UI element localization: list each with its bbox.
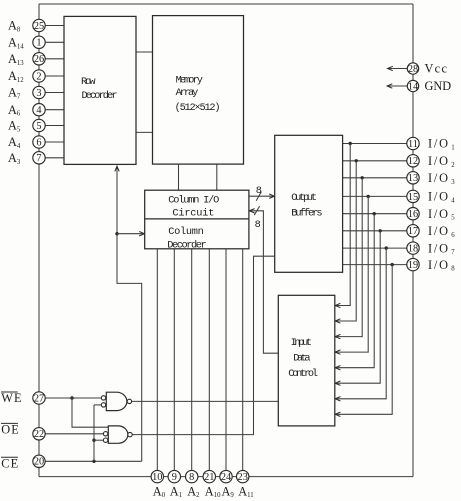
svg-text:2: 2 <box>36 71 41 82</box>
svg-text:26: 26 <box>34 54 44 65</box>
wire pin 25 to Row Decoder <box>39 25 64 27</box>
svg-text:I/O8: I/O8 <box>428 258 457 273</box>
svg-text:28: 28 <box>408 64 418 75</box>
wire CE branch up to gate inputs <box>93 405 95 461</box>
pin 9 <box>168 470 180 482</box>
svg-text:A3: A3 <box>8 151 21 166</box>
svg-text:Decorder: Decorder <box>82 90 118 102</box>
bus slash lower <box>254 206 259 215</box>
wire NAND G1 output to Input Data Control <box>132 400 279 402</box>
wire column address line pin 23 <box>242 249 244 477</box>
svg-text:A9: A9 <box>222 484 235 499</box>
svg-text:27: 27 <box>34 393 44 404</box>
pin 27 <box>33 392 45 404</box>
wire Memory Array to Column I/O left <box>178 164 180 190</box>
pin 16 <box>407 208 419 220</box>
svg-text:I/O5: I/O5 <box>428 207 457 222</box>
svg-text:14: 14 <box>408 81 418 92</box>
svg-text:13: 13 <box>408 173 418 184</box>
pin 5 <box>33 119 45 131</box>
svg-text:Decorder: Decorder <box>167 240 207 252</box>
svg-text:6: 6 <box>36 137 41 148</box>
pin 15 <box>407 190 419 202</box>
wire Row Decoder to Memory Array lower <box>136 131 153 133</box>
wire Output Buffers to I/O pin 8 <box>343 264 413 266</box>
svg-text:Buffers: Buffers <box>291 207 322 219</box>
svg-text:19: 19 <box>408 260 418 271</box>
svg-text:Input: Input <box>291 337 313 349</box>
svg-text:A7: A7 <box>8 86 21 101</box>
svg-text:10: 10 <box>152 472 162 483</box>
block divider Column I/O vs Column Decoder <box>145 218 249 220</box>
svg-text:18: 18 <box>408 244 418 255</box>
block Row Decoder U-row <box>64 16 136 164</box>
pin 17 <box>407 225 419 237</box>
pin 14 <box>407 80 418 91</box>
svg-text:15: 15 <box>408 192 418 203</box>
wire top pin rail <box>39 3 413 5</box>
wire Output Buffers to I/O pin 6 <box>343 230 413 232</box>
svg-text:I/O6: I/O6 <box>428 224 457 239</box>
pin 6 <box>33 136 45 148</box>
wire 8-bit bus Column I/O to Output Buffers <box>249 195 274 197</box>
svg-text:Column I/O: Column I/O <box>168 195 219 207</box>
wire left pin rail <box>38 4 40 477</box>
power Vcc arrow <box>388 68 408 70</box>
svg-text:GND: GND <box>425 79 452 93</box>
wire Output Buffers to I/O pin 5 <box>343 213 413 215</box>
wire I/O 3 feedback to Input Data Control <box>336 178 363 337</box>
gate U1 NAND (write control) <box>106 392 116 410</box>
pin 11 <box>407 137 419 149</box>
junction WE branch <box>70 396 73 399</box>
junction I/O 3 feedback tap <box>361 176 364 179</box>
pin 1 <box>33 36 45 48</box>
svg-text:25: 25 <box>34 21 44 32</box>
junction I/O 4 feedback tap <box>367 195 370 198</box>
wire NAND G2 output to Output Buffers <box>132 256 275 434</box>
wire column address line pin 9 <box>173 249 175 477</box>
wire branch arrow into Column Decoder <box>117 233 144 235</box>
wire pin 6 to Row Decoder <box>39 141 64 143</box>
pin 4 <box>33 104 45 116</box>
svg-text:A0: A0 <box>153 484 166 499</box>
wire pin 2 to Row Decoder <box>39 75 64 77</box>
junction CE branch <box>92 460 95 463</box>
wire bottom pin rail <box>39 476 413 478</box>
svg-text:A5: A5 <box>8 119 21 134</box>
svg-text:I/O3: I/O3 <box>428 171 457 186</box>
svg-text:OE: OE <box>1 423 20 437</box>
wire column address line pin 10 <box>156 249 158 477</box>
svg-text:3: 3 <box>36 88 41 99</box>
wire Output Buffers to I/O pin 4 <box>343 195 413 197</box>
wire column address line pin 21 <box>208 249 210 477</box>
junction CE to G2 stub <box>92 439 95 442</box>
wire pin 26 to Row Decoder <box>39 58 64 60</box>
junction CE-decoder branch <box>115 232 118 235</box>
svg-text:Output: Output <box>291 192 317 204</box>
wire 8-bit bus Input Data Control to Column I/O <box>250 211 279 353</box>
svg-text:(512×512): (512×512) <box>175 102 221 114</box>
wire OE pin 22 to NAND G2 input <box>39 433 103 435</box>
svg-text:Column: Column <box>168 226 204 238</box>
svg-text:11: 11 <box>408 139 418 150</box>
svg-text:5: 5 <box>36 121 41 132</box>
svg-text:Row: Row <box>81 76 96 88</box>
block Input Data Control <box>278 295 335 426</box>
wire column address line pin 24 <box>225 249 227 477</box>
wire WE branch to NAND G2 direct input <box>72 398 108 427</box>
wire I/O 5 feedback to Input Data Control <box>336 214 375 368</box>
pin 21 <box>203 470 215 482</box>
svg-text:9: 9 <box>172 472 177 483</box>
svg-text:20: 20 <box>34 457 44 468</box>
svg-text:A1: A1 <box>170 484 182 499</box>
pin 25 <box>33 19 45 31</box>
block Output Buffers <box>275 135 343 272</box>
wire pin 4 to Row Decoder <box>39 109 64 111</box>
svg-text:WE: WE <box>1 391 23 405</box>
svg-text:A8: A8 <box>8 19 21 34</box>
junction I/O 8 feedback tap <box>391 263 394 266</box>
svg-text:A12: A12 <box>8 69 24 84</box>
svg-text:A6: A6 <box>8 103 21 118</box>
wire I/O 2 feedback to Input Data Control <box>336 161 357 321</box>
svg-text:Data: Data <box>293 353 310 365</box>
wire Output Buffers to I/O pin 1 <box>343 143 413 145</box>
wire pin 5 to Row Decoder <box>39 125 64 127</box>
pin 23 <box>237 470 249 482</box>
svg-text:CE: CE <box>1 456 19 470</box>
wire pin 7 to Row Decoder <box>39 157 64 159</box>
wire right pin rail <box>412 4 414 477</box>
bus slash upper <box>256 192 261 201</box>
pin 28 <box>407 63 418 74</box>
wire pin 1 to Row Decoder <box>39 41 64 43</box>
pin 20 <box>33 455 45 467</box>
block Memory Array <box>153 16 244 165</box>
wire stub to G1 lower bubble <box>94 404 101 406</box>
wire CE enable to Row Decoder and Column Decoder <box>117 167 142 461</box>
svg-text:7: 7 <box>36 153 41 164</box>
svg-text:A4: A4 <box>8 135 21 150</box>
svg-text:I/O7: I/O7 <box>428 241 457 256</box>
wire column address line pin 8 <box>191 249 193 477</box>
wire Output Buffers to I/O pin 2 <box>343 160 413 162</box>
svg-text:Memory: Memory <box>176 74 203 86</box>
svg-text:A13: A13 <box>8 52 24 67</box>
pin 22 <box>33 428 45 440</box>
svg-text:I/O2: I/O2 <box>428 154 457 169</box>
pin 3 <box>33 86 45 98</box>
svg-text:22: 22 <box>34 429 44 440</box>
svg-text:A2: A2 <box>187 484 200 499</box>
svg-text:A14: A14 <box>8 36 24 51</box>
junction I/O 6 feedback tap <box>379 229 382 232</box>
wire stub to G2 lower bubble <box>94 439 103 441</box>
wire I/O 1 feedback to Input Data Control <box>336 144 351 306</box>
svg-text:A11: A11 <box>238 484 253 499</box>
svg-text:8: 8 <box>189 472 194 483</box>
pin 12 <box>407 155 419 167</box>
pin 2 <box>33 70 45 82</box>
pin 7 <box>33 152 45 164</box>
wire Output Buffers to I/O pin 7 <box>343 247 413 249</box>
svg-text:12: 12 <box>408 156 418 167</box>
ground GND arrow <box>387 85 407 87</box>
block Column I/O Circuit / Column Decoder <box>145 190 249 249</box>
svg-text:1: 1 <box>36 38 41 49</box>
pin 8 <box>186 470 198 482</box>
svg-text:Array: Array <box>176 87 199 99</box>
junction I/O 1 feedback tap <box>349 142 352 145</box>
svg-text:4: 4 <box>36 105 41 116</box>
pin 19 <box>407 258 419 270</box>
svg-text:16: 16 <box>408 209 418 220</box>
pin 24 <box>220 470 232 482</box>
pin 26 <box>33 53 45 65</box>
wire Row Decoder to Memory Array upper <box>136 51 153 53</box>
svg-text:A10: A10 <box>205 484 221 499</box>
pin 13 <box>407 172 419 184</box>
wire CE pin 20 rightwards <box>39 460 142 462</box>
junction I/O 2 feedback tap <box>355 159 358 162</box>
svg-text:24: 24 <box>221 472 231 483</box>
wire I/O 4 feedback to Input Data Control <box>336 196 369 352</box>
svg-text:23: 23 <box>238 472 248 483</box>
wire I/O 7 feedback to Input Data Control <box>336 248 387 399</box>
wire Memory Array to Column I/O right <box>216 164 218 190</box>
wire pin 3 to Row Decoder <box>39 92 64 94</box>
wire I/O 6 feedback to Input Data Control <box>336 231 381 383</box>
wire I/O 8 feedback to Input Data Control <box>336 265 393 415</box>
junction I/O 5 feedback tap <box>373 212 376 215</box>
svg-text:Vcc: Vcc <box>425 62 449 76</box>
svg-text:Circuit: Circuit <box>172 207 214 219</box>
svg-text:Control: Control <box>288 368 318 380</box>
wire Output Buffers to I/O pin 3 <box>343 177 413 179</box>
svg-text:21: 21 <box>204 472 214 483</box>
svg-text:17: 17 <box>408 226 418 237</box>
pin 18 <box>407 242 419 254</box>
junction I/O 7 feedback tap <box>385 246 388 249</box>
svg-text:8: 8 <box>255 219 261 231</box>
wire WE pin 27 to NAND G1 input <box>39 397 101 399</box>
svg-text:8: 8 <box>256 185 262 197</box>
svg-text:I/O4: I/O4 <box>428 190 457 205</box>
svg-text:I/O1: I/O1 <box>428 137 457 152</box>
gate U2 NAND (output enable) <box>108 426 118 443</box>
pin 10 <box>151 470 163 482</box>
